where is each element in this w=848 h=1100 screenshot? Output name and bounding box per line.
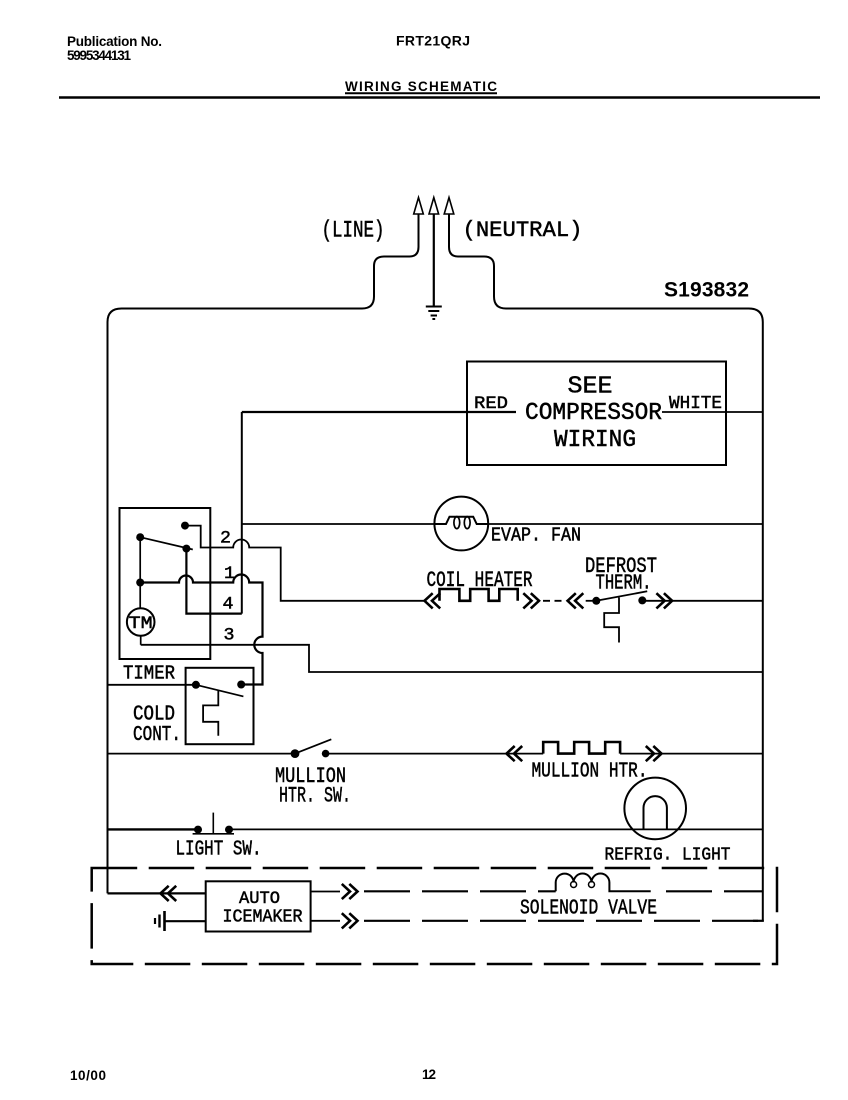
plug prong arrowhead neutral bbox=[444, 198, 454, 215]
cold control switch arm bbox=[196, 685, 244, 697]
svg-text:10/00: 10/00 bbox=[70, 1068, 106, 1083]
cold control left contact dot bbox=[192, 681, 200, 689]
solenoid coil loop 2 bbox=[589, 882, 595, 888]
svg-text:FRT21QRJ: FRT21QRJ bbox=[396, 33, 470, 49]
icemaker right top wire bbox=[311, 891, 340, 893]
wire ground prong stem bbox=[433, 214, 435, 306]
header horizontal rule bbox=[59, 96, 820, 99]
cold control right contact dot bbox=[237, 681, 245, 689]
compressor box U1 bbox=[467, 362, 726, 466]
wire timer motor to terminal 3 bbox=[140, 636, 142, 645]
svg-text:(LINE): (LINE) bbox=[322, 218, 385, 245]
wire mullion switch to heater bbox=[326, 753, 544, 755]
timer pivot to motor wire bbox=[139, 537, 141, 608]
cold control sensing element bbox=[203, 691, 218, 736]
wire left bus to icemaker bbox=[108, 892, 206, 894]
icemaker right bottom wire bbox=[311, 920, 340, 922]
svg-text:RED: RED bbox=[474, 394, 508, 414]
svg-text:AUTO: AUTO bbox=[239, 889, 280, 909]
wire evaporator fan line bbox=[242, 523, 763, 525]
svg-text:HTR. SW.: HTR. SW. bbox=[279, 784, 351, 809]
mullion switch left contact dot bbox=[291, 749, 300, 758]
wire left bus to light switch bbox=[108, 828, 199, 830]
main cabinet outline left bbox=[108, 309, 363, 894]
svg-text:Publication No.: Publication No. bbox=[67, 34, 162, 49]
wire to defrost thermostat bbox=[586, 600, 597, 602]
svg-text:3: 3 bbox=[224, 626, 235, 646]
solenoid valve coil L1 bbox=[556, 874, 651, 892]
timer box bbox=[120, 508, 211, 659]
svg-text:12: 12 bbox=[422, 1067, 436, 1082]
wire line prong to box top bbox=[362, 214, 419, 309]
light switch right contact dot bbox=[225, 826, 233, 834]
refrigerator light bulb circle bbox=[624, 778, 686, 840]
refrigerator light filament bbox=[644, 796, 667, 829]
connector chevrons after mullion heater bbox=[646, 746, 662, 761]
wire main vertical feed bbox=[241, 412, 243, 614]
svg-text:2: 2 bbox=[220, 529, 231, 549]
svg-text:THERM.: THERM. bbox=[596, 573, 652, 596]
wire neutral prong to box top bbox=[449, 214, 506, 309]
svg-text:WHITE: WHITE bbox=[669, 393, 722, 414]
light switch bridge contact bbox=[193, 833, 234, 835]
svg-text:CONT.: CONT. bbox=[133, 724, 181, 747]
svg-text:1: 1 bbox=[224, 564, 235, 584]
timer terminal 1 dot bbox=[136, 579, 144, 587]
wire terminal 3 to right bus bbox=[141, 645, 763, 672]
svg-text:COMPRESSOR: COMPRESSOR bbox=[525, 400, 662, 427]
svg-text:COIL HEATER: COIL HEATER bbox=[427, 567, 533, 593]
cold control box bbox=[186, 668, 254, 744]
svg-text:4: 4 bbox=[223, 595, 234, 615]
main cabinet outline right bbox=[506, 309, 763, 922]
svg-text:EVAP. FAN: EVAP. FAN bbox=[491, 525, 581, 547]
connector chevrons before mullion heater bbox=[507, 746, 523, 761]
evap fan winding loop 2 bbox=[464, 517, 470, 529]
icemaker ground wire bbox=[165, 920, 206, 922]
svg-text:WIRING SCHEMATIC: WIRING SCHEMATIC bbox=[345, 79, 497, 94]
connector chevrons before coil heater bbox=[425, 593, 441, 608]
svg-text:WIRING: WIRING bbox=[554, 427, 636, 454]
svg-text:S193832: S193832 bbox=[664, 279, 749, 302]
wire timer terminal 4 to main vertical bbox=[186, 549, 241, 614]
svg-text:MULLION HTR.: MULLION HTR. bbox=[532, 760, 648, 784]
dashed enclosure box bbox=[92, 868, 777, 964]
connector chevrons before icemaker bbox=[161, 886, 177, 901]
connector chevrons icemaker bottom bbox=[342, 913, 358, 928]
svg-text:SOLENOID VALVE: SOLENOID VALVE bbox=[520, 896, 657, 920]
evap fan winding loop 1 bbox=[454, 517, 460, 529]
mullion switch arm bbox=[295, 739, 331, 753]
header title underline bbox=[345, 92, 497, 94]
defrost thermostat switch arm bbox=[596, 591, 647, 601]
timer motor TM circle bbox=[127, 608, 155, 636]
plug prong arrowhead ground bbox=[429, 198, 439, 215]
dashed wire icemaker bottom to right bus bbox=[364, 920, 758, 922]
coil heater R1 element bbox=[440, 589, 518, 601]
connector chevrons before defrost thermostat bbox=[568, 593, 584, 608]
mullion switch right contact dot bbox=[322, 750, 330, 758]
timer switch pivot dot bbox=[136, 533, 144, 541]
auto icemaker box bbox=[206, 881, 311, 931]
timer terminal 2 dot bbox=[181, 522, 189, 530]
defrost thermostat sensing element bbox=[604, 598, 619, 643]
svg-text:5995344131: 5995344131 bbox=[67, 48, 131, 63]
timer terminal 4 dot bbox=[182, 545, 190, 553]
ground symbol bbox=[426, 307, 442, 320]
defrost thermostat right contact dot bbox=[638, 596, 646, 604]
wire red to compressor bbox=[242, 411, 516, 413]
wire left bus to cold control bbox=[108, 684, 196, 686]
wire dashes between connectors bbox=[543, 600, 562, 602]
wire mullion heater to right bus bbox=[620, 753, 763, 755]
wire light switch to right bus bbox=[229, 828, 763, 830]
svg-text:REFRIG. LIGHT: REFRIG. LIGHT bbox=[605, 845, 731, 866]
svg-text:TM: TM bbox=[129, 614, 153, 634]
svg-text:SEE: SEE bbox=[568, 374, 613, 401]
svg-text:ICEMAKER: ICEMAKER bbox=[223, 907, 303, 927]
light switch actuator bbox=[212, 813, 214, 835]
svg-text:TIMER: TIMER bbox=[123, 663, 175, 685]
connector chevrons icemaker top bbox=[342, 884, 358, 899]
evap fan motor B1 circle bbox=[434, 497, 488, 551]
mullion heater R2 element bbox=[543, 742, 620, 754]
dashed wire solenoid to right bus bbox=[666, 890, 763, 892]
timer switch arm bbox=[140, 537, 193, 549]
dashed wire icemaker to solenoid bbox=[364, 890, 556, 892]
wire timer terminal 1 to cold control bbox=[140, 575, 262, 685]
icemaker chassis ground symbol bbox=[155, 911, 165, 931]
wire defrost thermostat to right bus bbox=[642, 600, 763, 602]
svg-text:LIGHT SW.: LIGHT SW. bbox=[176, 837, 262, 861]
wire white from compressor bbox=[662, 411, 763, 413]
connector chevrons after coil heater bbox=[523, 593, 539, 608]
svg-text:(NEUTRAL): (NEUTRAL) bbox=[463, 218, 583, 243]
wire left bus to mullion switch bbox=[108, 753, 296, 755]
wire timer terminal 2 to coil heater bbox=[185, 526, 424, 601]
connector chevrons after defrost thermostat bbox=[656, 593, 672, 608]
evap fan motor winding bbox=[435, 517, 489, 524]
defrost thermostat left contact dot bbox=[592, 597, 600, 605]
solenoid coil loop 1 bbox=[571, 882, 577, 888]
plug prong arrowhead line bbox=[414, 198, 424, 215]
light switch left contact dot bbox=[194, 826, 202, 834]
